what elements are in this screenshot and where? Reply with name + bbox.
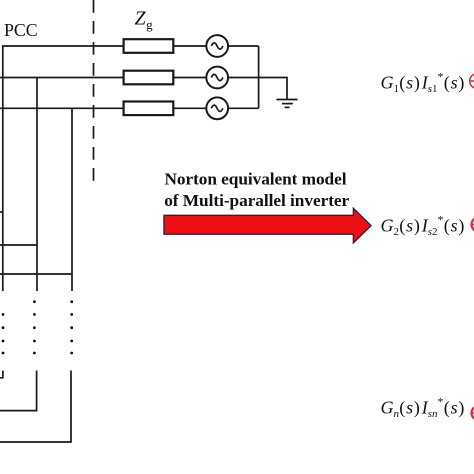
svg-text:of Multi-parallel inverter: of Multi-parallel inverter: [164, 191, 349, 210]
svg-text:PCC: PCC: [4, 20, 38, 40]
svg-text:Zg: Zg: [135, 7, 154, 32]
svg-text:G1(s)Is1*(s): G1(s)Is1*(s): [381, 70, 465, 96]
svg-text:Norton equivalent model: Norton equivalent model: [165, 169, 347, 188]
svg-text:G2(s)Is2*(s): G2(s)Is2*(s): [381, 213, 465, 239]
svg-text:Gn(s)Isn*(s): Gn(s)Isn*(s): [381, 395, 465, 421]
